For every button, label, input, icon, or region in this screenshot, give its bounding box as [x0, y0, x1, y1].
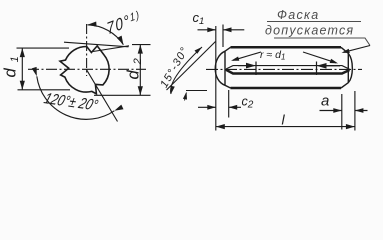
c2 extension line	[228, 90, 230, 118]
arrow at right tick	[323, 65, 340, 67]
svg-text:d1: d1	[2, 50, 22, 77]
a dimension line with outside arrows	[320, 110, 368, 112]
c1 dimension line with outside arrows	[198, 29, 245, 31]
shared extension line at pin right extremity	[354, 91, 356, 131]
arrow at left tick	[238, 65, 250, 67]
groove end tick left	[255, 62, 257, 76]
groove flank reference line (long, over circle top)	[64, 42, 129, 47]
chamfer angle arc with arrows	[171, 47, 202, 94]
l dimension line with arrows	[216, 126, 355, 128]
underline of note line 2 and leader	[274, 38, 370, 46]
svg-text:c2: c2	[242, 95, 254, 111]
c1 second extension line	[222, 25, 224, 48]
groove band upper line	[226, 66, 350, 70]
svg-text:допускается: допускается	[265, 24, 354, 38]
pin left rounded end	[215, 47, 230, 88]
pin top edge	[231, 46, 342, 49]
underline of note line 1	[267, 21, 361, 23]
120-degree angle arc with arrows	[37, 76, 115, 119]
svg-text:120°± 20°: 120°± 20°	[42, 89, 101, 113]
a extension line at chamfer	[341, 94, 343, 130]
shared extension line at pin left extremity	[215, 26, 217, 131]
leader from label to left end	[233, 52, 261, 60]
pin right chamfered end	[341, 47, 352, 88]
horizontal reference stub	[186, 90, 207, 92]
dimension d2 line with arrows	[139, 45, 141, 96]
pin bottom edge	[231, 87, 342, 90]
groove band lower line	[226, 70, 350, 74]
dimension d1 line with arrows	[21, 48, 23, 90]
c2 dimension line with outside arrows	[198, 106, 241, 108]
groove flank reference line (short, rising)	[93, 46, 129, 52]
svg-text:15°-30°: 15°-30°	[158, 45, 191, 90]
svg-text:c1: c1	[193, 10, 205, 27]
svg-text:l: l	[282, 112, 286, 128]
horizontal centerline	[28, 68, 146, 70]
dimension d1 extension lines	[17, 48, 71, 90]
groove end tick right	[316, 62, 318, 76]
leader arrow to chamfer	[344, 46, 371, 53]
pin axis centerline	[206, 68, 362, 70]
vertical centerline	[86, 24, 88, 76]
leader from label to right end	[303, 52, 336, 63]
small arrow onto stub	[185, 93, 187, 101]
svg-text:r ≈ d1: r ≈ d1	[260, 49, 285, 62]
svg-text:70°1): 70°1)	[105, 8, 142, 39]
radius line from center through lower-right groove	[86, 69, 117, 121]
70-degree angle arc with arrows	[88, 25, 124, 45]
chamfer angle reference line	[167, 42, 216, 91]
svg-text:Фаска: Фаска	[277, 8, 320, 22]
dimension d2 extension lines	[94, 45, 151, 96]
pin cross-section circle with three grooves	[60, 46, 109, 94]
svg-text:d2: d2	[125, 52, 145, 79]
svg-text:a: a	[321, 93, 329, 110]
